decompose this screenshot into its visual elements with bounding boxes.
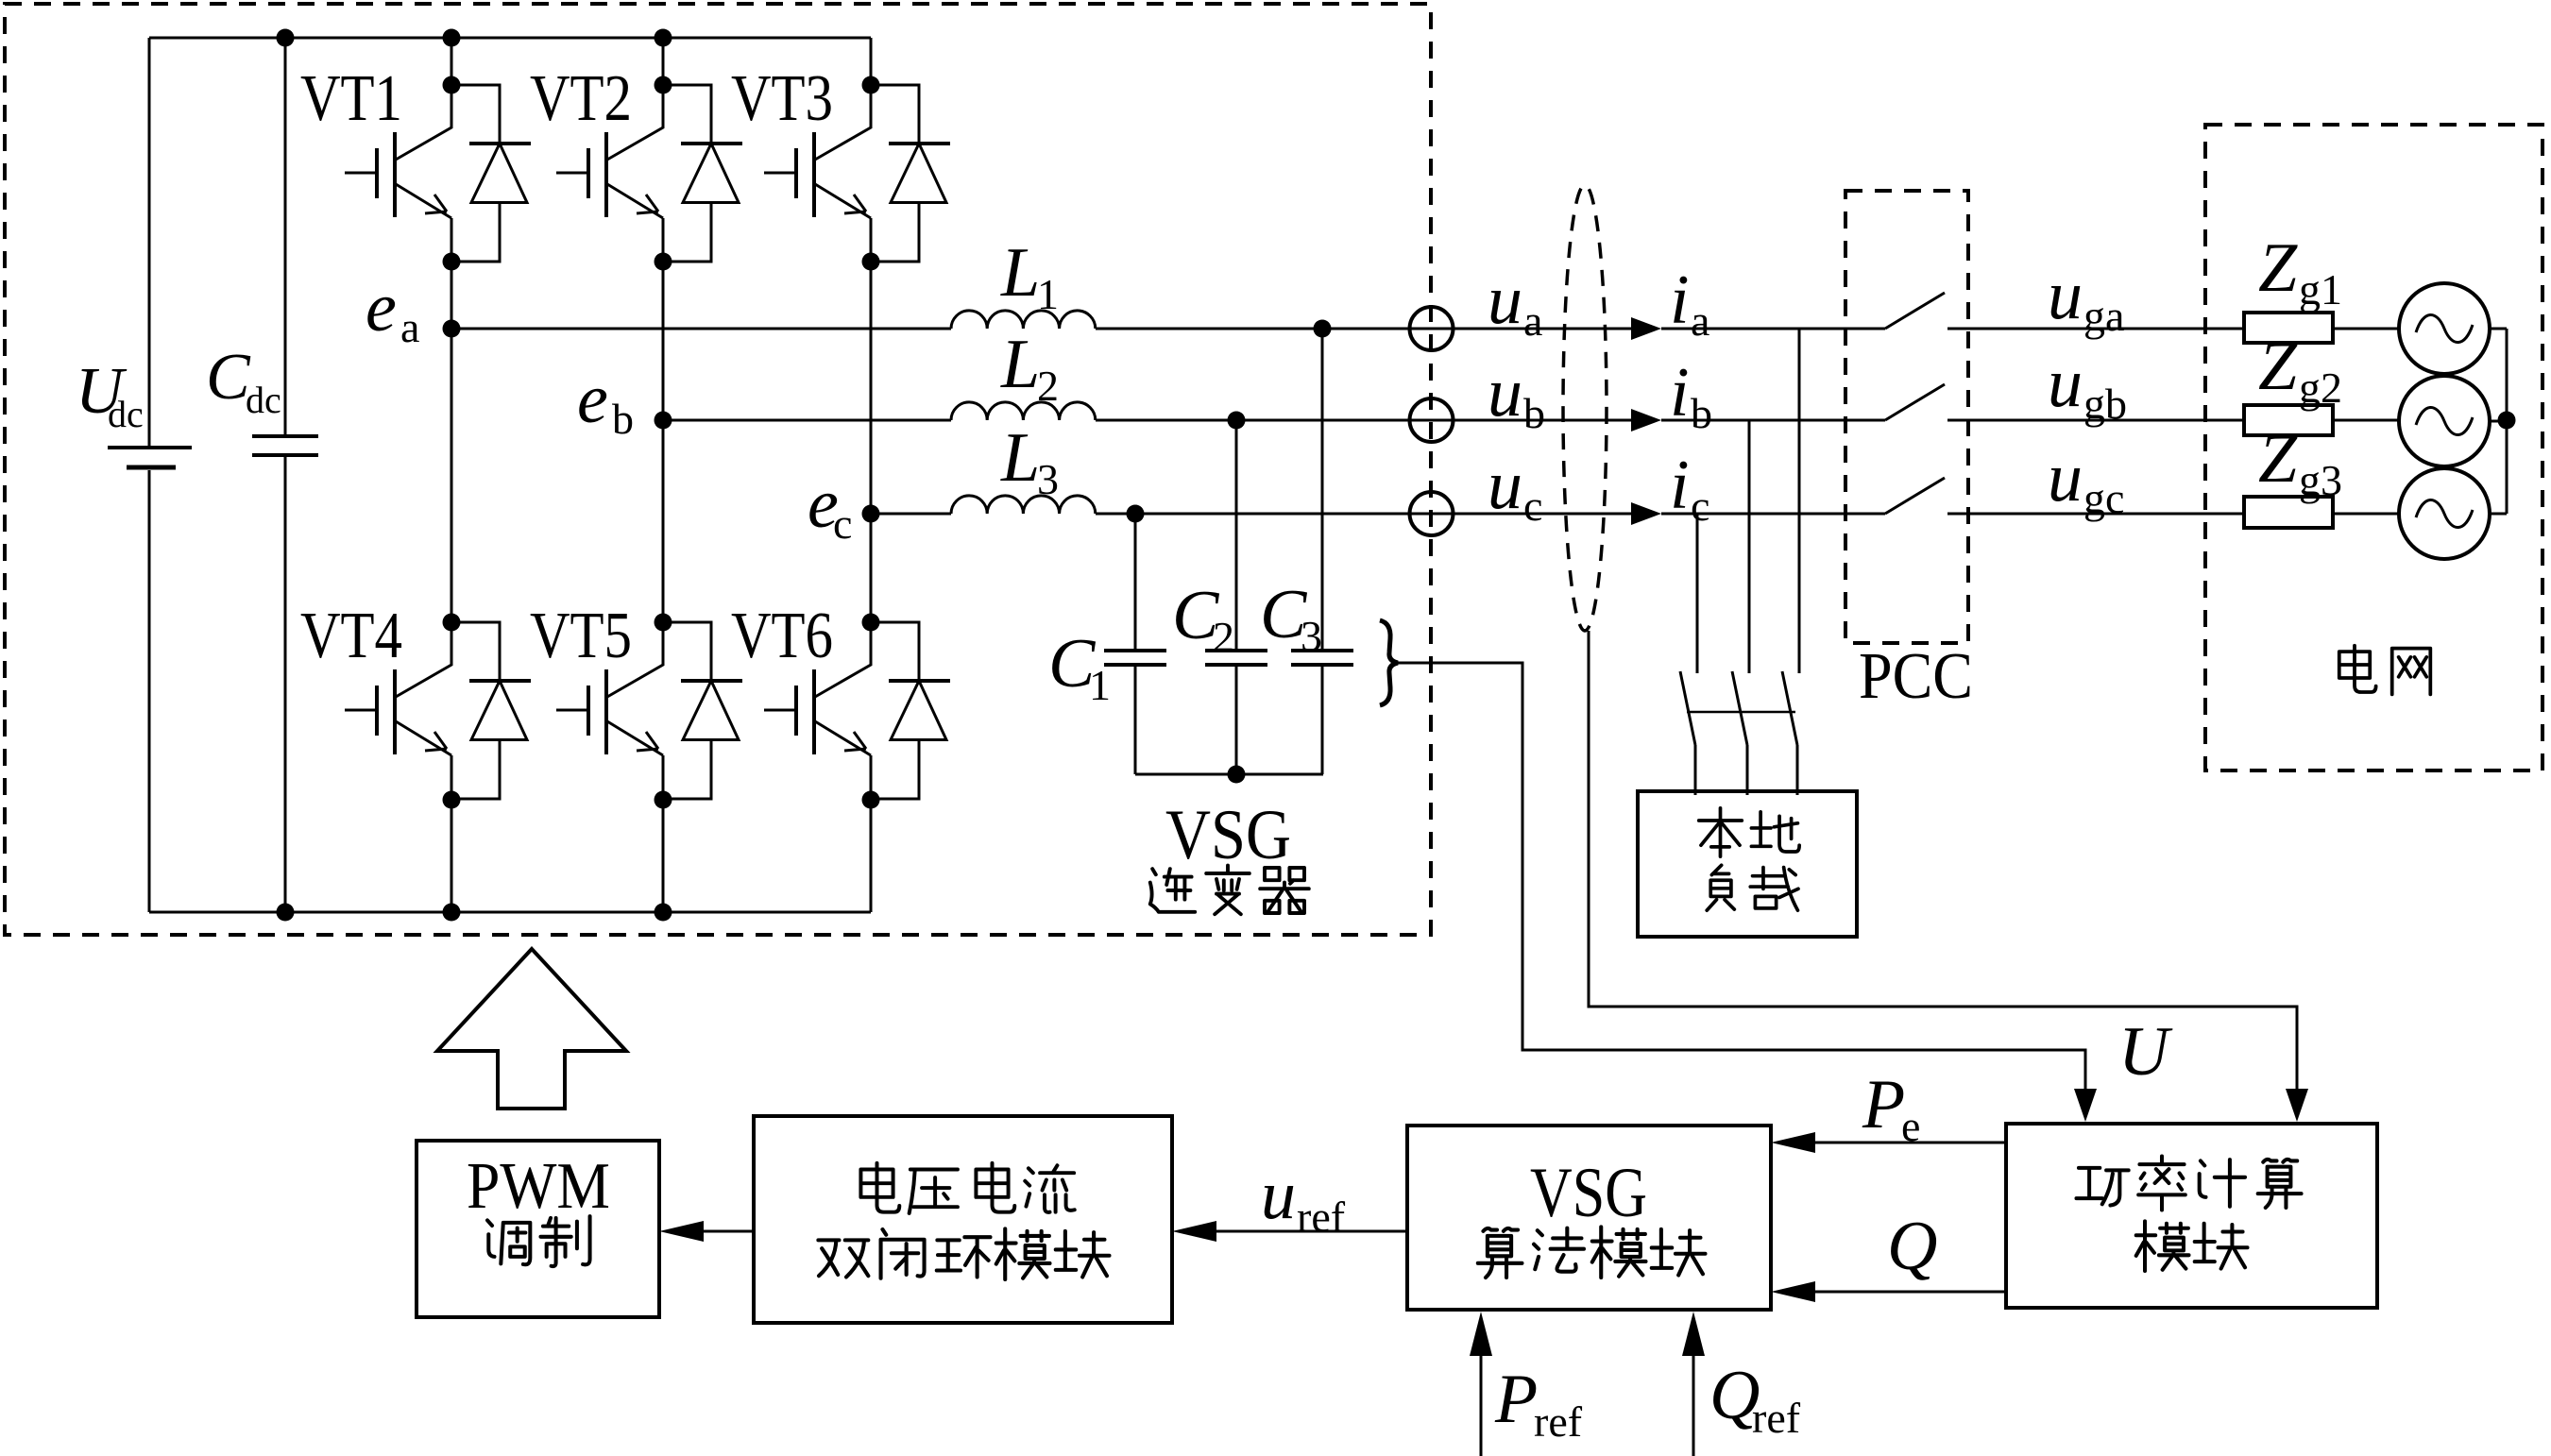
- svg-text:ref: ref: [1297, 1193, 1346, 1241]
- svg-text:u: u: [1488, 447, 1522, 524]
- svg-text:c: c: [833, 499, 852, 548]
- transistor VT6: [764, 622, 950, 799]
- svg-text:VT4: VT4: [300, 600, 402, 672]
- wire phase c: [871, 513, 2507, 516]
- leg 2 wire: [662, 38, 665, 912]
- label 调制: [487, 1220, 530, 1264]
- svg-text:P: P: [1494, 1361, 1538, 1438]
- AC source c: [2399, 468, 2490, 559]
- svg-text:g2: g2: [2299, 364, 2342, 412]
- svg-text:VT1: VT1: [300, 62, 402, 135]
- transistor VT4: [345, 622, 531, 799]
- svg-text:dc: dc: [108, 393, 144, 435]
- measurement ellipse (dashed): [1563, 185, 1607, 631]
- DC bus top rail: [149, 37, 871, 40]
- impedance Zg2: [2244, 405, 2333, 435]
- svg-text:PWM: PWM: [467, 1150, 610, 1223]
- impedance Zg1: [2244, 313, 2333, 343]
- local load box: [1638, 791, 1857, 937]
- svg-text:ref: ref: [1752, 1394, 1801, 1442]
- wire uref to PWM: [704, 1230, 754, 1233]
- label 模块 (power calc): [2136, 1221, 2189, 1271]
- big hollow arrow to inverter: [437, 949, 626, 1109]
- svg-text:gc: gc: [2083, 474, 2124, 522]
- svg-text:c: c: [1523, 482, 1542, 530]
- inductor L1: [951, 311, 1096, 329]
- svg-text:PCC: PCC: [1859, 640, 1973, 713]
- svg-text:Z: Z: [2258, 420, 2298, 498]
- svg-text:i: i: [1670, 262, 1690, 339]
- svg-text:i: i: [1670, 354, 1690, 432]
- svg-text:1: 1: [1089, 661, 1111, 709]
- transistor VT2: [556, 85, 742, 262]
- svg-text:g1: g1: [2299, 265, 2342, 313]
- svg-text:b: b: [612, 395, 634, 443]
- VSG algorithm block: [1407, 1126, 1771, 1310]
- svg-text:VT6: VT6: [731, 600, 833, 672]
- svg-text:3: 3: [1037, 455, 1059, 503]
- label 负载: [1707, 865, 1734, 910]
- arrow current into power module: [2286, 1089, 2308, 1122]
- svg-text:Z: Z: [2258, 328, 2298, 405]
- PWM block: [417, 1141, 659, 1317]
- svg-text:C: C: [206, 341, 251, 414]
- switch linkage: [1687, 711, 1795, 714]
- svg-text:u: u: [1261, 1157, 1296, 1234]
- AC source a: [2399, 283, 2490, 374]
- wire capacitor neutral bus: [1135, 773, 1323, 776]
- wire load tap c: [1696, 514, 1699, 673]
- label 算法模块: [1478, 1228, 1522, 1278]
- svg-text:Z: Z: [2258, 229, 2298, 307]
- wire load tap b: [1748, 420, 1751, 673]
- capacitor C1: [1134, 514, 1137, 774]
- label 电网: [2339, 646, 2376, 692]
- transistor VT1: [345, 85, 531, 262]
- power calculation block: [2006, 1124, 2377, 1308]
- svg-text:L: L: [1000, 326, 1040, 403]
- capacitor Cdc: [284, 38, 287, 912]
- load switch c: [1680, 671, 1695, 795]
- sensor circle phase b: [1410, 398, 1454, 442]
- svg-text:e: e: [577, 361, 608, 438]
- svg-text:e: e: [1901, 1102, 1920, 1150]
- label 双闭环模块: [818, 1240, 868, 1277]
- svg-text:i: i: [1670, 447, 1690, 524]
- svg-text:dc: dc: [246, 379, 281, 421]
- PCC switch b: [1885, 384, 1945, 420]
- wire uref from VSG: [1216, 1230, 1407, 1233]
- wire load tap a: [1798, 329, 1801, 673]
- arrow ic: [1631, 502, 1661, 525]
- inductor L2: [951, 402, 1096, 420]
- double closed-loop block: [754, 1116, 1172, 1323]
- label 逆变器: [1150, 869, 1195, 912]
- svg-text:a: a: [1523, 296, 1542, 345]
- arrow ia: [1631, 317, 1661, 340]
- arrow Pref: [1480, 1354, 1483, 1456]
- PCC dashed box: [1845, 191, 1968, 643]
- transistor VT5: [556, 622, 742, 799]
- battery Udc: [148, 38, 151, 912]
- DC bus bottom rail: [149, 911, 871, 914]
- brace for capacitor voltage sampling: [1380, 620, 1398, 705]
- svg-text:c: c: [1691, 482, 1709, 530]
- svg-text:VT3: VT3: [731, 62, 833, 135]
- AC source b: [2399, 376, 2490, 466]
- svg-text:u: u: [1488, 262, 1522, 339]
- transistor VT3: [764, 85, 950, 262]
- svg-text:L: L: [1000, 419, 1040, 497]
- wire Q: [1815, 1291, 2006, 1294]
- load switch a: [1782, 671, 1797, 795]
- arrow ib: [1631, 409, 1661, 432]
- capacitor C3: [1321, 329, 1324, 774]
- wire phase b: [663, 420, 2507, 421]
- svg-text:a: a: [400, 303, 419, 351]
- svg-text:P: P: [1862, 1066, 1905, 1143]
- load switch b: [1732, 671, 1747, 795]
- svg-text:b: b: [1523, 389, 1545, 437]
- impedance Zg3: [2244, 497, 2333, 528]
- svg-text:VSG: VSG: [1530, 1154, 1647, 1232]
- VSG inverter outer dashed box: [5, 4, 1431, 935]
- label 电压电流: [860, 1163, 899, 1212]
- PCC switch c: [1885, 478, 1945, 514]
- grid (电网) dashed box: [2205, 125, 2542, 770]
- arrow U into power module: [2074, 1089, 2097, 1122]
- svg-text:3: 3: [1301, 612, 1322, 660]
- svg-text:U: U: [2118, 1013, 2173, 1091]
- arrow Qref: [1692, 1354, 1695, 1456]
- label 本地: [1699, 808, 1743, 856]
- inductor L3: [951, 496, 1096, 514]
- svg-text:ref: ref: [1534, 1397, 1583, 1446]
- wire Pe: [1815, 1142, 2006, 1144]
- PCC switch a: [1885, 293, 1945, 329]
- svg-text:e: e: [366, 269, 397, 347]
- svg-text:ga: ga: [2083, 292, 2124, 340]
- wire phase a: [451, 328, 2507, 330]
- svg-text:a: a: [1691, 296, 1709, 345]
- label 功率计算: [2076, 1168, 2128, 1206]
- svg-text:Q: Q: [1887, 1208, 1937, 1285]
- wire voltage sampling: [1398, 663, 2085, 1089]
- svg-text:VT5: VT5: [530, 600, 632, 672]
- svg-text:u: u: [2048, 345, 2083, 422]
- svg-text:b: b: [1691, 389, 1712, 437]
- svg-text:VSG: VSG: [1165, 796, 1291, 874]
- svg-text:g3: g3: [2299, 456, 2342, 504]
- svg-text:2: 2: [1213, 613, 1234, 661]
- sensor circle phase c: [1410, 492, 1454, 535]
- svg-text:gb: gb: [2083, 380, 2127, 428]
- sensor circle phase a: [1410, 307, 1454, 350]
- svg-text:u: u: [2048, 439, 2083, 516]
- svg-text:u: u: [1488, 354, 1522, 432]
- wire current sampling: [1589, 631, 2297, 1089]
- wire grid neutral bus: [2506, 329, 2508, 514]
- svg-text:VT2: VT2: [530, 62, 632, 135]
- svg-text:u: u: [2048, 257, 2083, 334]
- svg-text:2: 2: [1037, 362, 1059, 410]
- leg 3 wire: [870, 38, 873, 912]
- capacitor C2: [1235, 420, 1238, 774]
- svg-text:L: L: [1000, 234, 1040, 312]
- svg-text:1: 1: [1037, 270, 1059, 318]
- leg 1 wire: [451, 38, 453, 912]
